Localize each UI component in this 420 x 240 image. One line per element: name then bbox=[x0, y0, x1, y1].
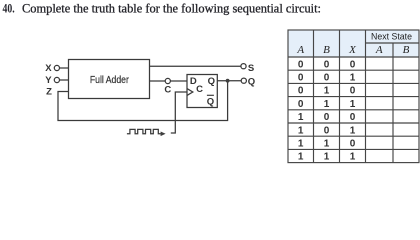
svg-text:0: 0 bbox=[324, 59, 330, 70]
svg-text:0: 0 bbox=[324, 112, 330, 123]
svg-text:0: 0 bbox=[350, 86, 356, 97]
svg-text:Q: Q bbox=[248, 76, 255, 87]
svg-text:0: 0 bbox=[350, 59, 356, 70]
svg-text:0: 0 bbox=[350, 139, 356, 150]
svg-text:S: S bbox=[248, 63, 254, 74]
svg-text:0: 0 bbox=[324, 73, 330, 84]
svg-text:1: 1 bbox=[324, 139, 330, 150]
svg-text:X: X bbox=[45, 63, 52, 74]
svg-text:0: 0 bbox=[298, 73, 304, 84]
svg-text:1: 1 bbox=[298, 152, 304, 163]
svg-text:1: 1 bbox=[324, 99, 330, 110]
svg-text:A: A bbox=[375, 44, 383, 56]
svg-text:1: 1 bbox=[298, 125, 304, 136]
svg-text:1: 1 bbox=[350, 125, 356, 136]
svg-text:Y: Y bbox=[45, 75, 52, 86]
svg-text:Full Adder: Full Adder bbox=[90, 75, 130, 86]
svg-text:1: 1 bbox=[324, 86, 330, 97]
svg-text:0: 0 bbox=[324, 125, 330, 136]
svg-text:C: C bbox=[164, 84, 171, 95]
svg-text:A: A bbox=[296, 44, 304, 56]
svg-text:Complete the truth table for t: Complete the truth table for the followi… bbox=[22, 2, 321, 16]
svg-text:C: C bbox=[196, 84, 203, 95]
svg-text:0: 0 bbox=[350, 112, 356, 123]
svg-text:1: 1 bbox=[350, 152, 356, 163]
svg-text:Z: Z bbox=[46, 86, 52, 97]
svg-text:1: 1 bbox=[350, 73, 356, 84]
svg-text:0: 0 bbox=[298, 86, 304, 97]
svg-text:X: X bbox=[348, 44, 357, 56]
svg-text:Q: Q bbox=[207, 96, 214, 107]
svg-text:Next State: Next State bbox=[371, 32, 412, 43]
svg-text:B: B bbox=[323, 44, 330, 56]
svg-text:0: 0 bbox=[298, 59, 304, 70]
svg-text:40.: 40. bbox=[3, 2, 15, 16]
svg-text:1: 1 bbox=[298, 112, 304, 123]
svg-text:1: 1 bbox=[350, 99, 356, 110]
svg-text:1: 1 bbox=[298, 139, 304, 150]
svg-text:1: 1 bbox=[324, 152, 330, 163]
svg-text:B: B bbox=[403, 44, 410, 56]
svg-text:0: 0 bbox=[298, 99, 304, 110]
svg-text:Q: Q bbox=[208, 76, 215, 87]
